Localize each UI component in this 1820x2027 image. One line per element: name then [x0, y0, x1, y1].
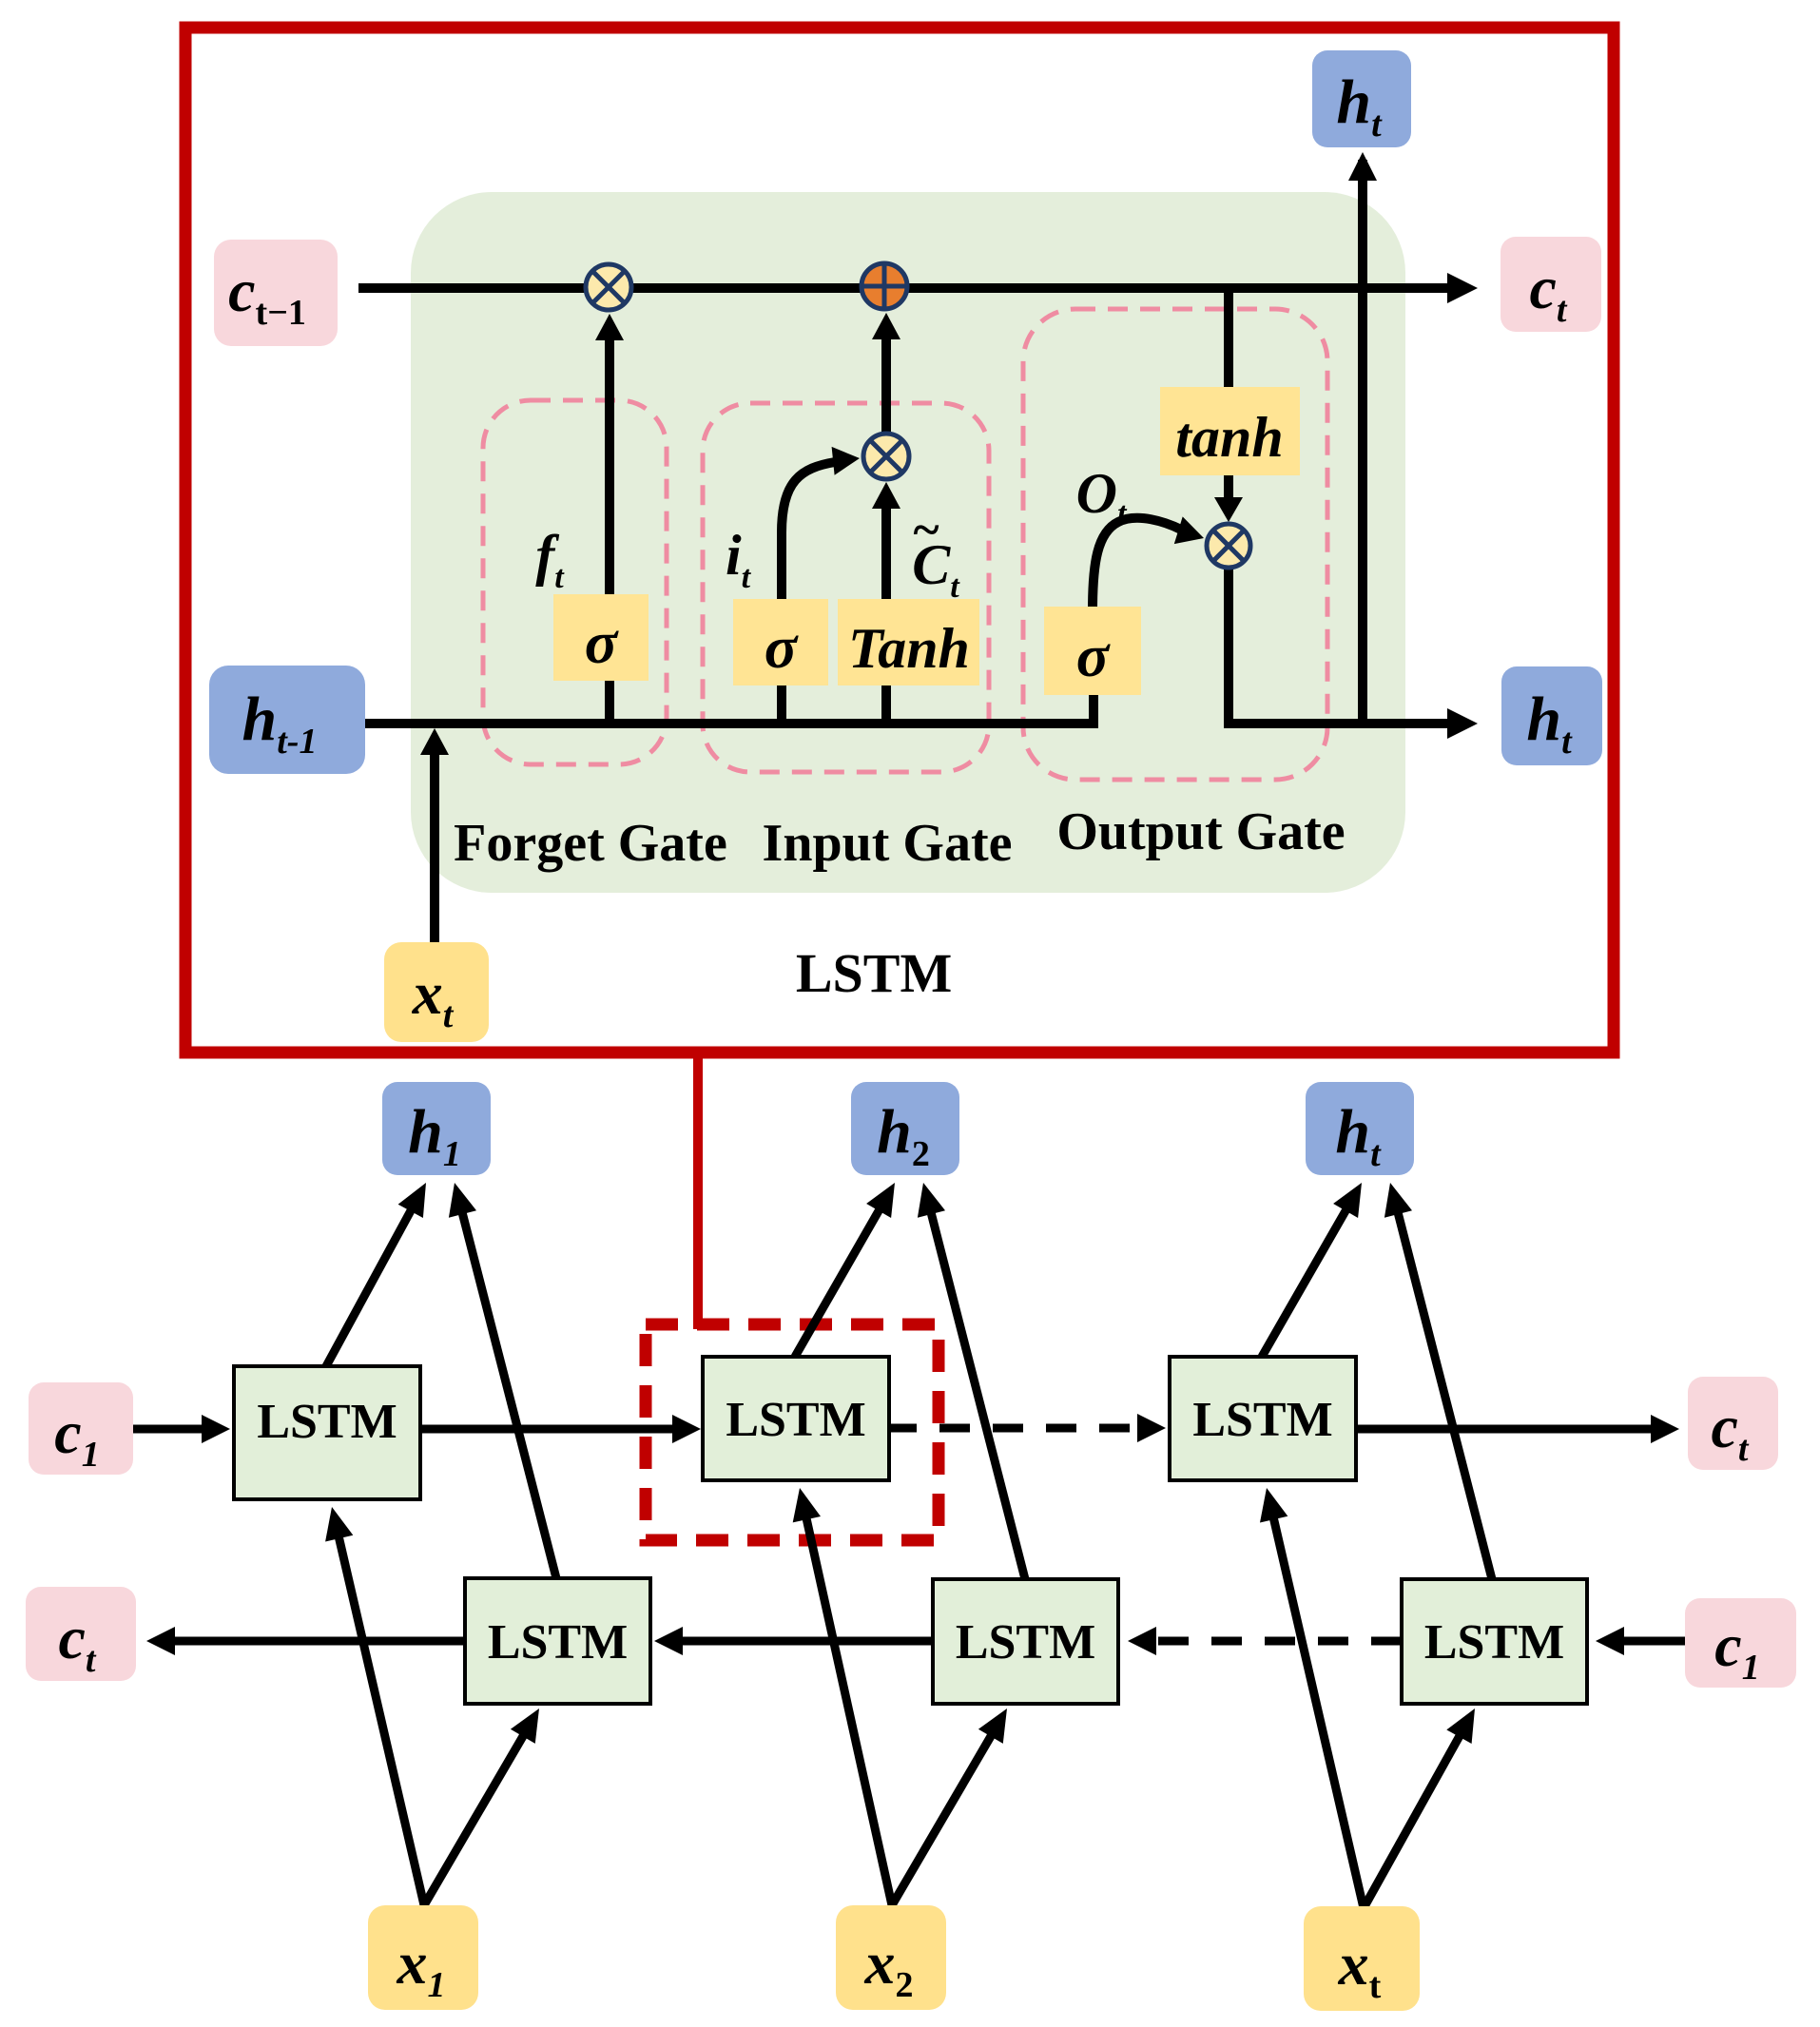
node c_t right [1501, 237, 1601, 332]
node h_t top [1312, 50, 1411, 147]
wire LSTM2 to h_2 [795, 1206, 881, 1357]
node x_1 [368, 1905, 478, 2010]
wire LSTM3 to h_t [1262, 1206, 1348, 1357]
svg-text:Output Gate: Output Gate [1056, 802, 1345, 861]
node h_1 [382, 1082, 491, 1175]
wire x_t to backward LSTM3 [1364, 1732, 1462, 1909]
wire backward LSTM3 to h_t [1397, 1208, 1492, 1579]
operator multiply input [863, 434, 909, 479]
wire x_1 to LSTM1 [338, 1533, 424, 1905]
svg-text:σ: σ [1076, 622, 1111, 689]
output gate dashed region [1023, 309, 1327, 780]
LSTM cell 3 forward [1170, 1357, 1356, 1480]
svg-text:Forget Gate: Forget Gate [454, 814, 727, 873]
node c_1 right bottom [1685, 1598, 1796, 1688]
wire backward LSTM1 to h_1 [461, 1208, 556, 1578]
svg-text:LSTM: LSTM [726, 1393, 865, 1447]
LSTM cell 3 backward [1402, 1579, 1587, 1704]
node c_t right top [1688, 1377, 1778, 1470]
wire LSTM3 to c_t [1356, 1425, 1656, 1434]
wire input multiply to plus [881, 327, 891, 434]
LSTM cell 1 backward [465, 1578, 650, 1704]
wire h_t vertical branch to top [1358, 160, 1367, 724]
wire O_t curve into output multiply [1093, 518, 1181, 610]
node c_t left bottom [26, 1587, 136, 1681]
wire c_1 to LSTM3 backward [1618, 1637, 1685, 1646]
svg-text:σ: σ [585, 608, 619, 676]
sigma box input [733, 599, 828, 685]
tanh box output [1160, 387, 1300, 475]
node c_1 left [29, 1382, 133, 1475]
node h_t right [1501, 666, 1602, 765]
wire LSTM1 to c_t backward [169, 1637, 465, 1646]
svg-text:LSTM: LSTM [257, 1395, 397, 1449]
wire LSTM1 to LSTM2 [420, 1425, 678, 1434]
input gate dashed region [703, 403, 989, 772]
operator multiply forget [586, 264, 631, 310]
svg-text:σ: σ [765, 613, 799, 681]
wire LSTM3 to LSTM2 backward dashed [1151, 1637, 1402, 1646]
wire cell state line c_t-1 to c_t [358, 283, 1455, 293]
red dashed highlight box [646, 1324, 939, 1540]
node h_2 [851, 1082, 959, 1175]
LSTM cell 1 forward [234, 1366, 420, 1499]
wire Tanh branch from h line [881, 666, 891, 724]
sigma box output [1044, 607, 1141, 695]
svg-text:LSTM: LSTM [488, 1615, 628, 1670]
Tanh box input [838, 599, 979, 685]
wire tanh box to output multiply [1224, 473, 1233, 504]
operator multiply output [1207, 524, 1250, 568]
wire hidden state line h_t-1 across gates [365, 692, 1094, 724]
node h_t-1 [209, 666, 365, 774]
LSTM cell frame (red box) [185, 28, 1614, 1052]
svg-text:Input Gate: Input Gate [763, 814, 1013, 873]
wire x_2 to backward LSTM2 [892, 1731, 994, 1905]
green cell body panel [411, 192, 1405, 893]
svg-text:LSTM: LSTM [1424, 1615, 1564, 1670]
wire cell line down to tanh box [1224, 288, 1233, 390]
svg-text:LSTM: LSTM [956, 1615, 1095, 1670]
sigma box forget [553, 594, 649, 681]
svg-text:tanh: tanh [1175, 406, 1283, 469]
svg-text:~: ~ [913, 503, 939, 557]
wire c_1 to LSTM1 [133, 1425, 207, 1434]
svg-text:LSTM: LSTM [1192, 1393, 1332, 1447]
wire backward LSTM2 to h_2 [930, 1208, 1025, 1579]
svg-text:Tanh: Tanh [848, 617, 970, 680]
wire LSTM1 to h_1 [326, 1207, 414, 1366]
operator add cell [862, 263, 907, 309]
wire input sigma branch [777, 666, 786, 724]
node x_2 [836, 1905, 946, 2010]
wire output mul to h_t with arrow [1229, 568, 1455, 724]
wire x_t input arrow to h line [430, 745, 439, 946]
wire forget gate branch to multiply [605, 335, 614, 724]
wire i_t curve into multiply [782, 462, 835, 608]
wire Tanh to input multiply [881, 496, 891, 608]
wire x_1 to backward LSTM1 [424, 1731, 526, 1905]
wire LSTM2 to LSTM1 backward [677, 1637, 933, 1646]
LSTM cell 2 backward [933, 1579, 1118, 1704]
wire x_2 to LSTM2 [805, 1514, 892, 1905]
forget gate dashed region [483, 400, 667, 764]
svg-text:LSTM: LSTM [796, 942, 952, 1004]
wire LSTM2 to LSTM3 dashed [886, 1424, 1143, 1433]
node x_t unfolded [1304, 1906, 1420, 2011]
wire red connector from LSTM frame to unfolded cell [693, 1052, 703, 1329]
node h_t unfolded [1306, 1082, 1414, 1175]
node x_t input [384, 942, 489, 1042]
node c_t-1 [214, 240, 338, 346]
wire x_t to LSTM3 [1272, 1514, 1364, 1908]
LSTM cell 2 forward [703, 1357, 889, 1480]
